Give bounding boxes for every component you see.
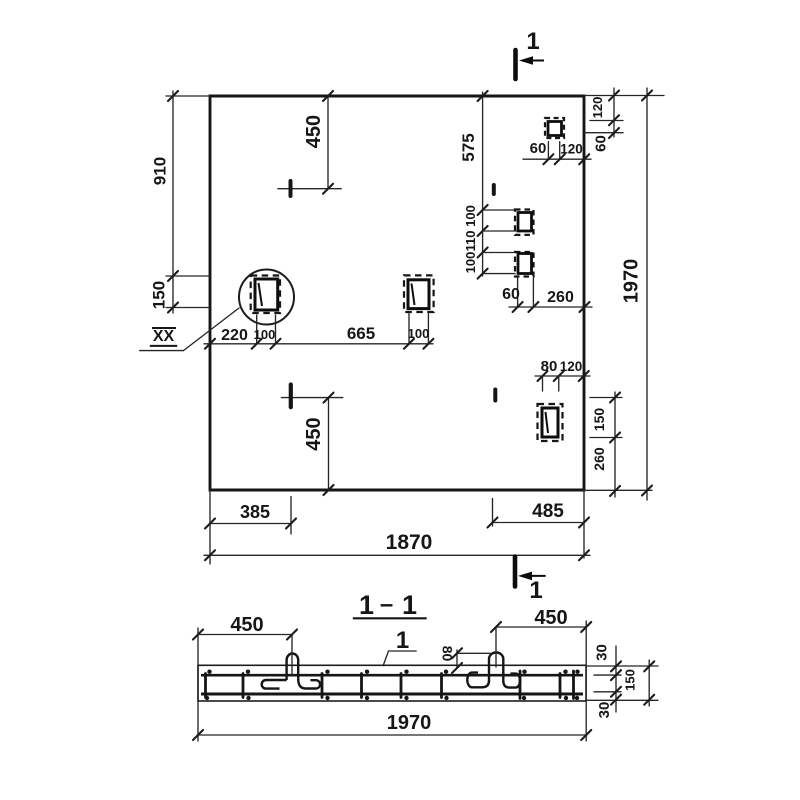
section title 1-1 (353, 590, 427, 620)
overall 1970 right dimension (620, 88, 652, 500)
svg-text:150: 150 (591, 408, 607, 432)
middle opening (404, 275, 434, 312)
svg-text:30: 30 (593, 644, 610, 661)
svg-text:220: 220 (221, 327, 248, 344)
right-top vertical 120/60 dimension (585, 88, 623, 152)
svg-text:665: 665 (347, 324, 375, 343)
opening in circle (251, 276, 280, 314)
right 150/260 dimension (590, 392, 622, 497)
svg-text:450: 450 (230, 614, 263, 636)
svg-text:260: 260 (591, 447, 607, 471)
svg-text:450: 450 (534, 607, 567, 629)
svg-text:60: 60 (502, 286, 520, 303)
section marker bottom (515, 557, 546, 605)
top 450 dimension with cross (278, 91, 341, 196)
section 450 right dimension (491, 607, 591, 741)
svg-text:1: 1 (526, 28, 539, 55)
slab outline (198, 665, 586, 701)
bottom dimension line 220/100/665/100 (204, 314, 433, 349)
svg-text:150: 150 (622, 669, 637, 691)
svg-text:1: 1 (529, 577, 542, 604)
bottom rebar (201, 693, 583, 696)
svg-text:100: 100 (463, 252, 478, 274)
svg-text:1970: 1970 (387, 712, 432, 734)
svg-text:1: 1 (359, 590, 374, 620)
svg-text:575: 575 (459, 133, 478, 161)
longitudinal bar dots top (207, 670, 579, 674)
svg-text:385: 385 (240, 502, 270, 522)
svg-text:60: 60 (530, 140, 547, 157)
svg-text:485: 485 (532, 501, 564, 522)
svg-text:100: 100 (254, 327, 276, 342)
section 80 dimension (439, 646, 490, 673)
left dimension 910/150 (149, 91, 210, 313)
svg-text:450: 450 (303, 417, 325, 450)
right lifting loop (467, 653, 520, 688)
svg-text:100: 100 (463, 205, 478, 227)
60/260 dimension (502, 278, 592, 312)
60/120 dimension under top-right opening (523, 140, 591, 164)
1870 dimension (204, 531, 590, 560)
svg-text:80: 80 (439, 646, 455, 662)
svg-text:100: 100 (408, 326, 430, 341)
svg-text:120: 120 (560, 142, 583, 157)
svg-text:–: – (380, 591, 393, 618)
top rebar (201, 674, 583, 677)
svg-text:60: 60 (593, 135, 610, 152)
bottom 450 dimension with cross (282, 385, 343, 496)
svg-text:80: 80 (541, 358, 558, 375)
svg-text:1870: 1870 (386, 531, 433, 554)
extension lines of panel edges (166, 96, 664, 565)
svg-text:30: 30 (596, 702, 613, 719)
575 / 100 110 100 dimension column (459, 91, 516, 279)
svg-text:1: 1 (402, 590, 417, 620)
leader 1 to slab (383, 627, 416, 666)
longitudinal bar dots bottom (205, 696, 579, 700)
svg-text:260: 260 (547, 289, 574, 306)
385 dimension (205, 497, 296, 535)
485 dimension (488, 499, 590, 528)
svg-text:450: 450 (303, 115, 325, 148)
svg-text:1: 1 (396, 627, 409, 654)
section marker top (516, 28, 545, 79)
section 450 left dimension (193, 614, 297, 741)
svg-text:910: 910 (150, 157, 169, 185)
section 1970 dimension (193, 712, 591, 740)
rebar dash marks (494, 185, 496, 401)
right column small openings (515, 210, 534, 235)
bottom-right opening (538, 404, 563, 441)
panel outline (210, 96, 584, 490)
svg-text:1970: 1970 (620, 259, 642, 304)
svg-text:120: 120 (590, 97, 605, 119)
svg-text:120: 120 (560, 359, 583, 374)
stirrups (206, 671, 574, 699)
detail circle with opening (140, 270, 294, 351)
top-right opening (545, 118, 564, 138)
svg-text:XX: XX (153, 328, 175, 345)
left lifting loop (262, 654, 320, 689)
svg-text:150: 150 (149, 281, 168, 309)
section right 30/150/30 dimensions (586, 644, 658, 718)
80/120 dimension above bottom-right opening (535, 358, 590, 391)
svg-text:110: 110 (463, 231, 478, 252)
